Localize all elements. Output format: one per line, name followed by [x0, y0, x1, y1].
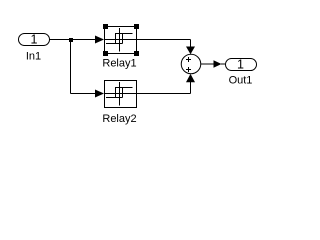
svg-text:1: 1 — [237, 58, 244, 72]
svg-text:Relay2: Relay2 — [102, 113, 136, 125]
wire branch to Relay2 — [71, 93, 96, 95]
svg-text:Out1: Out1 — [229, 75, 253, 87]
selection handle top-right — [134, 24, 139, 29]
sum plus bottom — [186, 69, 191, 71]
arrowhead into Relay1 — [95, 36, 104, 44]
selection handle bottom-left — [103, 51, 108, 56]
node junction dot — [69, 38, 73, 42]
arrowhead into sum top — [186, 47, 195, 55]
svg-text:1: 1 — [31, 33, 38, 47]
wire sum bottom rise — [190, 82, 192, 94]
outport Out1 oval — [226, 59, 257, 71]
relay icon Relay2 y-axis — [119, 82, 121, 106]
relay icon Relay1 right threshold — [122, 34, 124, 44]
wire sum to Out1 — [201, 63, 214, 65]
relay icon Relay1 left threshold — [115, 34, 117, 44]
wire branch vertical — [70, 40, 72, 94]
relay icon Relay1 x-axis — [105, 39, 137, 41]
svg-text:In1: In1 — [26, 51, 41, 63]
wire Relay2 to sum corner — [137, 93, 191, 95]
wire stub into Out1 — [221, 63, 225, 65]
relay icon Relay2 left threshold — [115, 88, 117, 98]
relay icon Relay2 upper level — [115, 87, 133, 89]
wire sum top drop — [190, 40, 192, 48]
sum plus top — [186, 57, 191, 72]
wire Relay1 to sum corner — [137, 39, 191, 41]
inport In1 oval — [19, 34, 50, 46]
relay block Relay1 — [105, 27, 137, 54]
selection handle bottom-right — [134, 51, 139, 56]
arrowhead into sum bottom — [186, 74, 195, 82]
relay block Relay2 — [105, 81, 137, 108]
relay icon Relay1 lower level — [106, 43, 123, 45]
relay icon Relay2 x-axis — [105, 93, 137, 95]
relay icon Relay1 y-axis — [119, 28, 121, 52]
selection handle top-left — [103, 24, 108, 29]
relay icon Relay2 right threshold — [122, 88, 124, 98]
relay icon Relay1 upper level — [115, 33, 133, 35]
svg-text:Relay1: Relay1 — [102, 58, 136, 70]
arrowhead into Out1 — [214, 60, 222, 68]
sum block circle — [181, 54, 201, 74]
relay icon Relay2 lower level — [106, 97, 123, 99]
wire In1 to junction to Relay1 — [49, 39, 96, 41]
arrowhead into Relay2 — [95, 90, 104, 98]
